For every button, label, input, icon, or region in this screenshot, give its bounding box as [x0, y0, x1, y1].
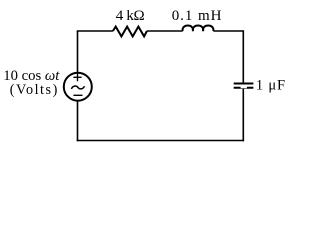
wire top-left segment — [77, 30, 113, 32]
wire top-right segment — [213, 30, 243, 32]
svg-text:1 μF: 1 μF — [256, 77, 286, 93]
wire right lower segment — [242, 89, 244, 142]
voltage source plus sign — [73, 73, 81, 81]
svg-text:0.1 mH: 0.1 mH — [172, 8, 222, 24]
wire top-middle segment — [147, 30, 183, 32]
voltage source V1 circle — [64, 73, 92, 101]
inductor L1 0.1 mH — [183, 26, 214, 31]
svg-text:(Volts): (Volts) — [10, 82, 58, 98]
voltage source sine tilde — [71, 86, 84, 89]
voltage source minus sign — [73, 94, 82, 96]
resistor R1 4 kOhm zigzag — [113, 27, 147, 37]
svg-text:4 kΩ: 4 kΩ — [116, 8, 145, 24]
wire right upper segment — [242, 30, 244, 82]
capacitor C1 1 uF — [234, 84, 254, 89]
wire left upper segment — [77, 31, 79, 73]
wire left lower segment — [77, 101, 79, 141]
wire bottom segment — [77, 140, 244, 142]
